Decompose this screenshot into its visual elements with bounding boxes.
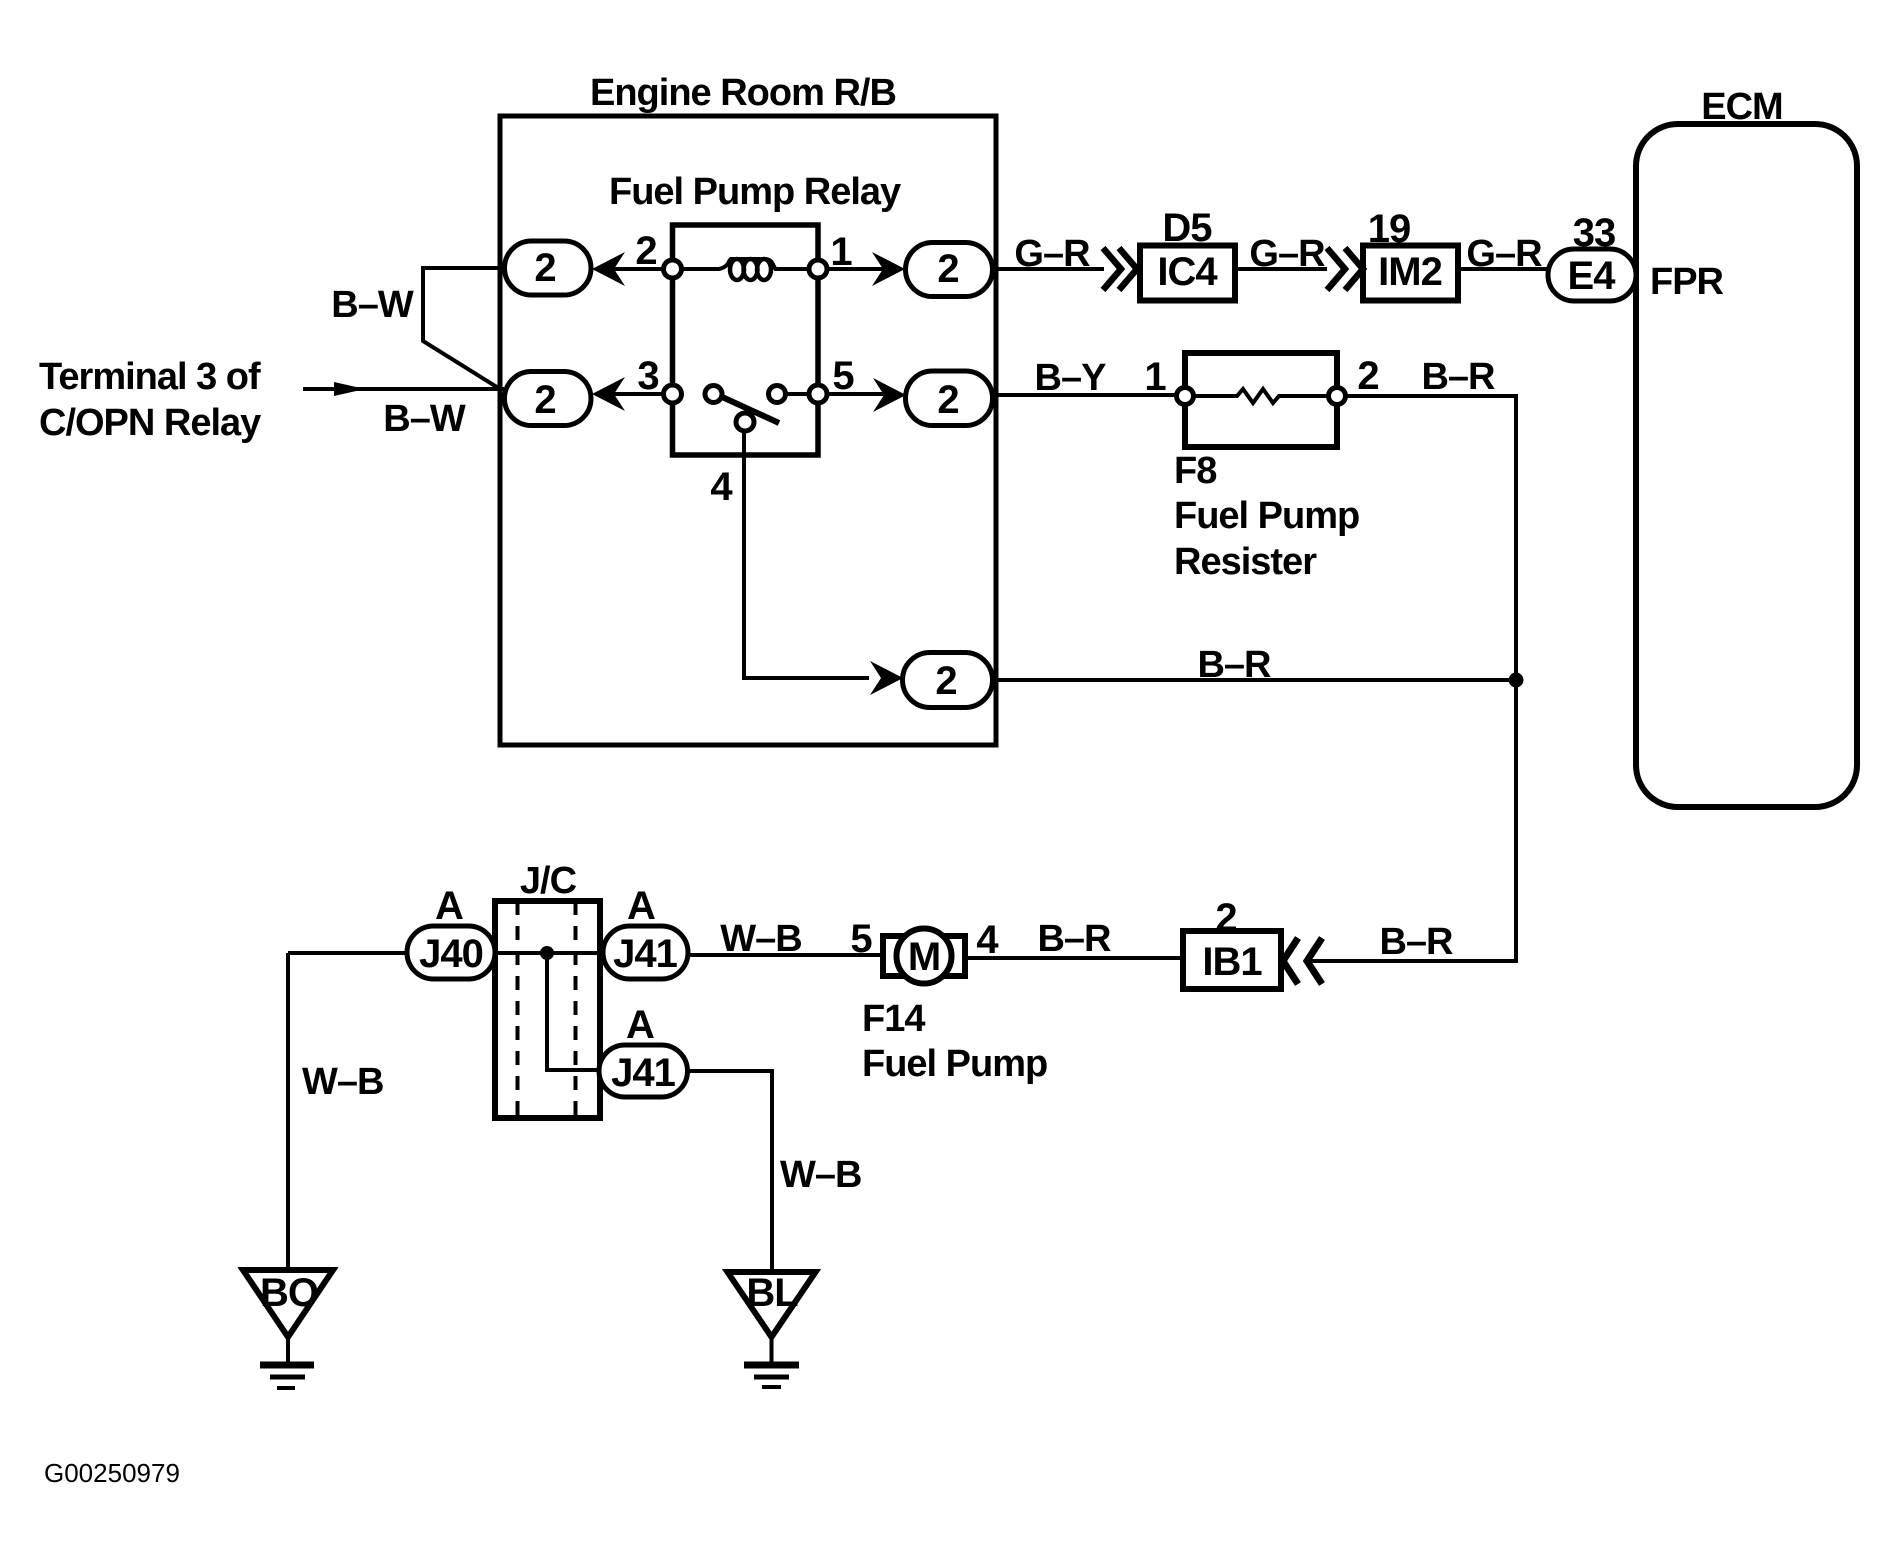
- wire from C/OPN relay with arrow: [303, 387, 504, 391]
- Engine Room R/B box: [500, 116, 996, 745]
- F8 terminal circle 1: [1177, 388, 1194, 405]
- wire junction down to bottom row corner: [1307, 680, 1516, 961]
- svg-text:B–R: B–R: [1197, 644, 1271, 686]
- svg-text:2: 2: [534, 378, 555, 422]
- wire J40 to left corner: [288, 951, 407, 955]
- junction dot: [1509, 673, 1524, 688]
- ground stem BL: [770, 1337, 774, 1365]
- svg-text:ECM: ECM: [1701, 86, 1782, 128]
- black arrow row3 right: [870, 661, 903, 695]
- chevron pair into IB1: [1283, 938, 1322, 984]
- svg-text:J40: J40: [419, 932, 483, 976]
- J/C junction box: [495, 901, 600, 1118]
- J/C dashed line right: [574, 901, 578, 1118]
- svg-text:W–B: W–B: [720, 918, 801, 960]
- relay box (Fuel Pump Relay outline): [673, 225, 819, 455]
- svg-text:BO: BO: [260, 1271, 318, 1315]
- svg-text:B–R: B–R: [1037, 918, 1111, 960]
- svg-text:BL: BL: [746, 1271, 798, 1315]
- J/C junction dot: [540, 946, 554, 960]
- wire B-W branch to row1 oval: [423, 268, 504, 389]
- svg-text:J41: J41: [611, 1051, 675, 1095]
- relay terminal circle pin2: [664, 260, 682, 278]
- connector oval E4 pin 33: [1548, 249, 1636, 301]
- svg-text:IC4: IC4: [1157, 250, 1218, 294]
- connector oval 2 row1 right: [906, 243, 993, 297]
- svg-text:Fuel Pump: Fuel Pump: [1174, 495, 1359, 537]
- ground triangle BL: [728, 1272, 816, 1337]
- ground stem BO: [286, 1337, 290, 1365]
- chevron pair into IC4: [1103, 248, 1137, 290]
- switch blade: [720, 396, 779, 423]
- connector IB1: [1183, 931, 1281, 989]
- connector IC4: [1140, 246, 1235, 301]
- svg-text:2: 2: [1357, 354, 1378, 398]
- ECM box: [1636, 124, 1857, 807]
- wire through J/C row: [495, 951, 603, 955]
- wire terminal 4 down and right to oval: [744, 429, 869, 678]
- svg-text:2: 2: [534, 246, 555, 290]
- black arrow row2 left: [592, 377, 625, 411]
- wire left arrow row2 to terminal 3: [610, 392, 663, 396]
- svg-text:E4: E4: [1568, 254, 1617, 298]
- svg-text:5: 5: [832, 354, 854, 398]
- svg-text:B–R: B–R: [1379, 921, 1453, 963]
- switch pivot contact: [736, 413, 754, 431]
- svg-text:B–Y: B–Y: [1035, 357, 1107, 399]
- wire motor to J41: [688, 953, 883, 957]
- svg-text:W–B: W–B: [302, 1061, 383, 1103]
- wire IM2 to E4: [1458, 267, 1548, 271]
- svg-text:B–R: B–R: [1421, 356, 1495, 398]
- svg-text:D5: D5: [1162, 206, 1212, 250]
- svg-text:Terminal 3 of: Terminal 3 of: [39, 356, 261, 398]
- connector oval 2 row2 right: [906, 371, 993, 426]
- svg-text:A: A: [435, 884, 463, 928]
- connector oval J41 upper: [603, 926, 688, 979]
- svg-text:G–R: G–R: [1466, 233, 1542, 275]
- wire terminal 1 to right arrow row1: [827, 267, 888, 271]
- svg-text:A: A: [627, 884, 655, 928]
- resistor zigzag: [1193, 389, 1328, 403]
- wire row1 oval to chevron D5: [992, 267, 1104, 271]
- black arrow row1 left: [592, 252, 625, 286]
- svg-text:Resister: Resister: [1174, 541, 1317, 583]
- svg-text:B–W: B–W: [331, 284, 414, 326]
- wire J/C dot down to lower J41: [547, 953, 607, 1070]
- relay terminal circle pin5: [809, 385, 827, 403]
- svg-text:M: M: [908, 935, 940, 979]
- svg-text:4: 4: [976, 918, 999, 962]
- wire row3 oval to junction: [992, 678, 1516, 682]
- svg-text:B–W: B–W: [383, 398, 466, 440]
- svg-text:2: 2: [935, 659, 956, 703]
- svg-text:G00250979: G00250979: [44, 1458, 180, 1488]
- ground triangle BO: [243, 1270, 333, 1337]
- wire IB1 to fuel pump motor: [966, 956, 1183, 960]
- svg-text:W–B: W–B: [780, 1154, 861, 1196]
- wire row2 oval to F8 pin1: [992, 393, 1180, 397]
- svg-text:IM2: IM2: [1378, 250, 1442, 294]
- relay terminal circle pin3: [664, 385, 682, 403]
- switch NO contact: [769, 386, 786, 403]
- black arrow row1 right: [872, 252, 905, 286]
- ground bars BO: [260, 1362, 314, 1369]
- svg-text:F8: F8: [1174, 450, 1216, 492]
- arrowhead on C/OPN wire: [334, 382, 365, 396]
- svg-text:G–R: G–R: [1249, 233, 1325, 275]
- svg-text:F14: F14: [862, 998, 925, 1040]
- svg-text:Fuel Pump Relay: Fuel Pump Relay: [609, 171, 901, 213]
- svg-text:2: 2: [937, 247, 958, 291]
- motor M circle: [897, 929, 952, 984]
- wire NO contact to terminal 5: [785, 392, 809, 396]
- F8 fuel pump resister box: [1185, 353, 1337, 447]
- svg-text:G–R: G–R: [1014, 233, 1090, 275]
- coil loop 1: [730, 259, 744, 280]
- svg-text:33: 33: [1573, 211, 1616, 255]
- connector IM2: [1363, 246, 1458, 301]
- switch fixed contact: [705, 386, 722, 403]
- relay coil wire: [681, 259, 810, 269]
- wire terminal 5 to right arrow row2: [827, 392, 889, 396]
- svg-text:A: A: [626, 1003, 654, 1047]
- chevron pair into IM2: [1327, 248, 1363, 290]
- black arrow row2 right: [873, 378, 906, 412]
- connector oval J41 lower: [599, 1045, 688, 1097]
- connector oval 2 row2 left: [505, 372, 592, 426]
- svg-text:2: 2: [937, 378, 958, 422]
- wire IC4 to chevron IM2: [1235, 267, 1327, 271]
- svg-text:Fuel Pump: Fuel Pump: [862, 1043, 1047, 1085]
- wire left arrow row1 to terminal 2: [610, 267, 663, 271]
- svg-text:J/C: J/C: [520, 860, 577, 902]
- wire left corner down to BO ground: [286, 953, 290, 1270]
- svg-text:4: 4: [710, 465, 733, 509]
- wire lower J41 right then down to BL ground: [688, 1071, 773, 1272]
- F8 terminal circle 2: [1329, 388, 1346, 405]
- svg-text:J41: J41: [613, 932, 677, 976]
- coil loop 3: [757, 259, 771, 280]
- svg-text:Engine Room R/B: Engine Room R/B: [590, 72, 896, 114]
- connector oval 2 row3 right: [903, 653, 993, 708]
- svg-text:1: 1: [1144, 355, 1166, 399]
- connector oval 2 row1 left: [505, 241, 592, 295]
- svg-text:2: 2: [635, 229, 656, 273]
- ground bars BL: [744, 1362, 799, 1369]
- svg-text:3: 3: [637, 354, 658, 398]
- coil loop 2: [744, 259, 758, 280]
- connector oval J40: [407, 926, 495, 979]
- svg-text:C/OPN Relay: C/OPN Relay: [39, 402, 261, 444]
- wire F8 pin2 right then down to junction: [1345, 396, 1516, 676]
- svg-text:IB1: IB1: [1202, 940, 1262, 984]
- motor frame: [883, 936, 965, 976]
- J/C dashed line left: [516, 901, 520, 1118]
- svg-text:19: 19: [1368, 207, 1411, 251]
- relay terminal circle pin1: [809, 260, 827, 278]
- svg-text:2: 2: [1215, 896, 1236, 940]
- svg-text:FPR: FPR: [1650, 261, 1724, 303]
